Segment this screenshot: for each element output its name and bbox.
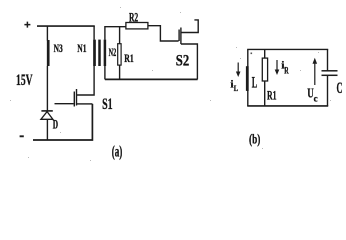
- svg-text:15V: 15V: [16, 72, 33, 89]
- svg-text:S2: S2: [176, 52, 189, 69]
- svg-text:(a): (a): [112, 144, 123, 161]
- svg-text:N1: N1: [77, 43, 86, 55]
- svg-text:L: L: [234, 83, 239, 93]
- svg-text:(b): (b): [249, 133, 261, 148]
- svg-text:C: C: [337, 80, 343, 97]
- svg-text:c: c: [314, 93, 318, 103]
- svg-text:N2: N2: [109, 47, 117, 59]
- svg-text:R1: R1: [267, 88, 277, 102]
- svg-text:S1: S1: [102, 96, 113, 113]
- svg-text:R: R: [284, 65, 289, 75]
- svg-text:R1: R1: [124, 53, 134, 65]
- svg-text:D: D: [53, 117, 58, 131]
- svg-text:N3: N3: [54, 43, 63, 55]
- svg-text:R2: R2: [129, 10, 138, 25]
- svg-text:L: L: [252, 75, 257, 92]
